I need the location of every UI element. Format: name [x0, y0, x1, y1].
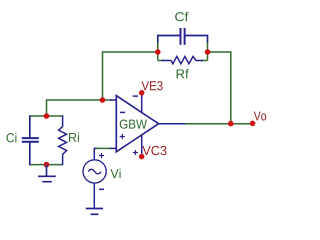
feedback loop bottom wire left stub (resistor branch): [158, 60, 165, 62]
ground below Ci/Ri network: [38, 165, 56, 182]
ground below source Vi: [86, 209, 103, 215]
op-amp non-inverting input pin: [110, 147, 117, 149]
node dot output feedback junction: [228, 121, 234, 127]
wire input node to inverting pin: [47, 99, 112, 101]
capacitor Ci: [22, 115, 39, 165]
wire op-amp output to Vo terminal: [184, 123, 253, 125]
wire Vi to non-inverting pin: [95, 147, 111, 149]
wire top rail of Ci/Ri network: [30, 115, 63, 117]
label VE3: [142, 81, 163, 90]
op-amp inverting input pin: [110, 99, 117, 101]
node dot Ci/Ri top: [44, 113, 50, 119]
feedback loop left vertical wire: [157, 41, 159, 61]
node dot Ci/Ri bottom: [44, 162, 50, 168]
supply polarity marker - near VE3: [133, 95, 138, 97]
source Vi (sine voltage source): [83, 148, 106, 208]
wire from inverting-input node up to feedback loop left: [103, 52, 158, 100]
op-amp non-inverting input marker +: [120, 134, 125, 139]
feedback loop bottom wire right stub (resistor branch): [201, 60, 208, 62]
label VC3: [142, 146, 166, 155]
label Ri: [69, 132, 79, 141]
node VE3 terminal dot: [139, 90, 145, 96]
source Vi polarity marker + (top): [99, 153, 104, 158]
wire feedback loop right to output junction: [208, 52, 231, 124]
supply polarity marker + near VC3: [133, 150, 138, 155]
op-amp output pin: [159, 123, 186, 125]
op-amp negative supply pin (bottom): [141, 135, 143, 157]
op-amp U1 triangle: [116, 96, 158, 152]
feedback loop right vertical wire: [207, 41, 209, 61]
label Rf: [177, 69, 189, 78]
node Vo terminal dot: [250, 121, 256, 127]
label Vi: [110, 169, 120, 178]
node dot inverting input junction: [100, 97, 106, 103]
node dot feedback left: [155, 49, 161, 55]
capacitor Cf: [158, 28, 208, 45]
op-amp positive supply pin (top): [141, 93, 143, 112]
source Vi polarity marker - (bottom): [99, 188, 104, 190]
resistor Ri: [59, 115, 67, 165]
label Cf: [175, 12, 188, 22]
node dot feedback right: [205, 49, 211, 55]
op-amp inverting input marker -: [120, 111, 125, 113]
resistor Rf: [162, 56, 203, 63]
node VC3 terminal dot: [139, 154, 145, 160]
label Vo: [254, 111, 266, 120]
op-amp U1 label GBW: [120, 120, 147, 129]
wire from Ci/Ri top rail up to input wire: [46, 99, 48, 116]
wire bottom rail of Ci/Ri network: [30, 164, 63, 166]
label Ci: [7, 133, 17, 143]
